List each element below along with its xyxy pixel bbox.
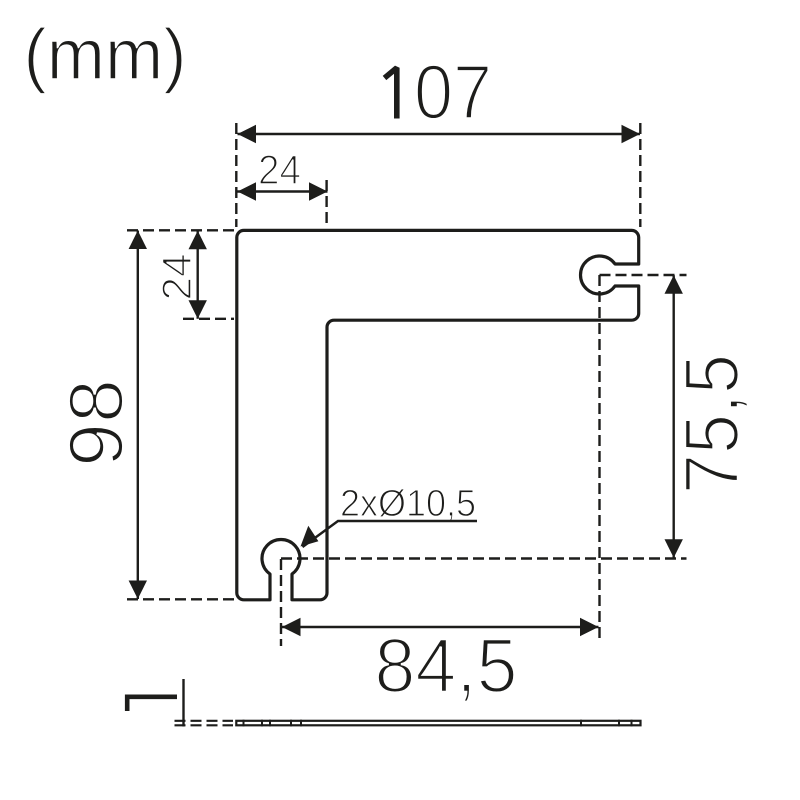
dimension line 84,5 xyxy=(282,626,599,628)
side view plate profile xyxy=(236,721,640,726)
arrowhead 75,5 bottom xyxy=(665,539,683,558)
svg-text:07: 07 xyxy=(414,50,492,136)
side view edge tick corner fillet left xyxy=(243,720,245,727)
centerline top hole vertical xyxy=(598,275,600,641)
side view edge tick top circle right xyxy=(618,720,620,727)
hole callout leader line xyxy=(303,521,478,547)
centerline top hole horizontal xyxy=(600,274,687,276)
hole callout arrowhead xyxy=(301,526,319,547)
side view hidden top surface dashes xyxy=(175,720,234,722)
arrowhead 107 left xyxy=(238,125,257,143)
side view hidden bottom surface dashes xyxy=(175,724,234,726)
side view edge tick bottom slot right xyxy=(290,720,292,727)
svg-text:2xØ10,5: 2xØ10,5 xyxy=(340,483,476,525)
svg-text:24: 24 xyxy=(258,146,301,193)
side view edge tick top circle left xyxy=(580,720,582,727)
arrowhead 24 top left xyxy=(238,182,257,200)
arrowhead 98 top xyxy=(129,231,147,250)
side view edge tick bottom circle left xyxy=(261,720,263,727)
centerline bottom hole horizontal xyxy=(281,557,687,559)
side view thickness extension line xyxy=(182,679,184,727)
svg-text:24: 24 xyxy=(153,254,200,301)
part outline L-shaped plate with keyhole slots xyxy=(237,230,639,599)
arrowhead 75,5 top xyxy=(665,275,683,294)
arrowhead 24 top right xyxy=(309,182,328,200)
thickness text 1 rotated xyxy=(127,697,177,711)
dimension line 24 left xyxy=(196,231,198,319)
arrowhead 107 right xyxy=(622,125,641,143)
svg-text:75,5: 75,5 xyxy=(669,354,755,494)
extension line bottom of left 24 xyxy=(183,318,234,320)
dimension line 98 xyxy=(137,231,139,600)
extension line right of 107 xyxy=(639,123,641,227)
arrowhead 24 left bottom xyxy=(189,300,207,319)
arrowhead 84,5 left xyxy=(282,618,301,636)
extension line right of top 24 xyxy=(325,180,327,227)
svg-text:98: 98 xyxy=(53,379,139,467)
dimension line 24 top xyxy=(238,190,328,192)
dimension line 75,5 xyxy=(673,275,675,558)
dimension text 107 digit 1 xyxy=(385,68,397,119)
centerline bottom hole vertical xyxy=(280,559,282,646)
extension line top of 98 xyxy=(127,229,234,231)
side view edge tick bottom slot left xyxy=(269,720,271,727)
side view edge tick corner fillet right xyxy=(631,720,633,727)
side view edge tick bottom circle right xyxy=(300,720,302,727)
extension line bottom of 98 xyxy=(127,598,234,600)
arrowhead 24 left top xyxy=(189,231,207,250)
svg-text:(mm): (mm) xyxy=(24,15,187,95)
extension line left of 107 xyxy=(235,123,237,227)
svg-text:84,5: 84,5 xyxy=(375,623,518,709)
arrowhead 84,5 right xyxy=(580,618,599,636)
arrowhead 98 bottom xyxy=(129,581,147,600)
dimension line 107 xyxy=(238,133,641,135)
